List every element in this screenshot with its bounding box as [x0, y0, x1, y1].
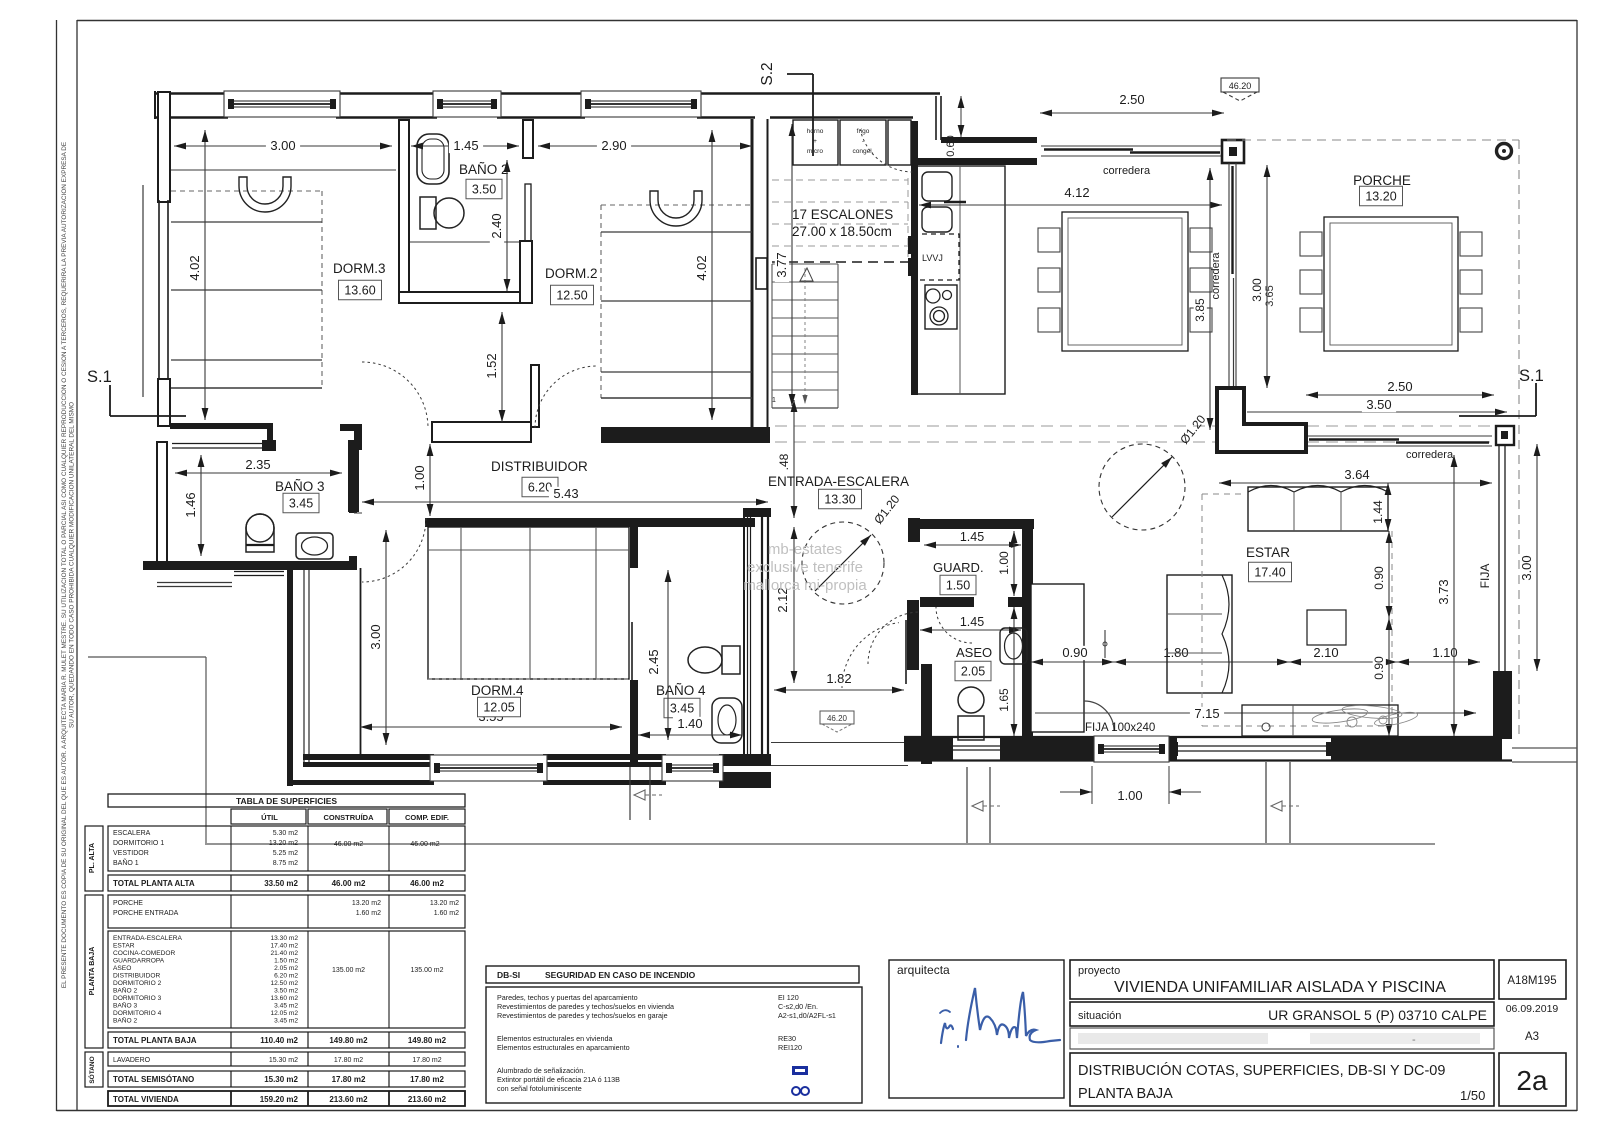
svg-text:BAÑO 2: BAÑO 2 — [459, 162, 509, 177]
svg-text:ESTAR: ESTAR — [113, 943, 135, 950]
svg-text:2.05 m2: 2.05 m2 — [274, 965, 298, 972]
svg-text:Elementos estructurales en apa: Elementos estructurales en aparcamiento — [497, 1043, 630, 1052]
window W1 top dorm3 — [224, 91, 340, 117]
svg-text:DORMITORIO 1: DORMITORIO 1 — [113, 840, 164, 847]
sofa top estar — [1248, 487, 1388, 531]
svg-text:12.05: 12.05 — [483, 701, 514, 715]
dorm3 door arc — [362, 362, 428, 428]
dorm2 door arc — [535, 366, 597, 428]
door post distribuidor-dorm3 — [340, 424, 362, 431]
pl alta group — [85, 826, 103, 891]
L pier kitchen-estar — [1217, 388, 1306, 452]
svg-text:46.00 m2: 46.00 m2 — [410, 841, 439, 848]
svg-text:2.35: 2.35 — [245, 457, 270, 472]
svg-text:TOTAL PLANTA ALTA: TOTAL PLANTA ALTA — [113, 879, 195, 888]
dorm2 bed — [601, 204, 752, 206]
svg-text:FIJA: FIJA — [1478, 564, 1492, 589]
svg-text:46.20: 46.20 — [1229, 81, 1252, 91]
svg-text:BAÑO 4: BAÑO 4 — [656, 683, 706, 698]
sideboard estar — [1242, 705, 1398, 736]
dorm4 left exterior face — [287, 562, 293, 786]
svg-text:1: 1 — [772, 397, 776, 404]
svg-text:17.40 m2: 17.40 m2 — [271, 943, 299, 950]
open arrow markers — [972, 801, 983, 811]
svg-text:13.60 m2: 13.60 m2 — [271, 995, 299, 1002]
svg-text:12.50 m2: 12.50 m2 — [271, 980, 299, 987]
svg-text:Extintor portátil de eficacia: Extintor portátil de eficacia 21A ó 113B — [497, 1075, 620, 1084]
svg-text:DISTRIBUIDOR: DISTRIBUIDOR — [113, 973, 160, 980]
svg-text:ENTRADA-ESCALERA: ENTRADA-ESCALERA — [768, 474, 909, 489]
dim 3.00 dorm4 — [385, 530, 387, 745]
svg-text:6.20 m2: 6.20 m2 — [274, 973, 298, 980]
svg-text:3.00: 3.00 — [1519, 555, 1534, 580]
svg-text:LAVADERO: LAVADERO — [113, 1057, 151, 1064]
svg-text:1.00: 1.00 — [997, 551, 1011, 575]
dims 2.50 3.50 estar top — [1306, 394, 1494, 396]
title block plano — [1070, 1053, 1494, 1106]
dim 4.12 kitchen — [919, 204, 1222, 206]
aseo door arc — [868, 612, 918, 664]
svg-text:2.40: 2.40 — [489, 213, 504, 238]
bano3 right wall — [349, 443, 357, 513]
total planta alta — [108, 875, 465, 891]
arquitecta box — [889, 960, 1064, 1098]
dim 2.12 entrada — [793, 527, 795, 683]
svg-text:1.00: 1.00 — [1117, 788, 1142, 803]
guard door arc — [936, 607, 972, 643]
svg-text:arquitecta: arquitecta — [897, 963, 950, 977]
svg-text:2.10: 2.10 — [1313, 645, 1338, 660]
svg-text:PLANTA BAJA: PLANTA BAJA — [89, 947, 96, 996]
dorm4 wardrobe bed block — [428, 527, 629, 679]
svg-text:5.43: 5.43 — [553, 486, 578, 501]
svg-text:ESTAR: ESTAR — [1246, 545, 1290, 560]
blue signage icons — [792, 1066, 808, 1075]
svg-text:6.20: 6.20 — [528, 481, 552, 495]
dim 1.44 — [1387, 483, 1389, 531]
left exterior wall dorm3 — [158, 92, 170, 202]
page border frame — [77, 20, 1577, 22]
corredera estar — [1306, 435, 1492, 437]
dorm2 pillow — [650, 191, 702, 226]
svg-text:VESTIDOR: VESTIDOR — [113, 850, 149, 857]
guard labels — [924, 544, 1021, 546]
window W2 top bano2 — [433, 91, 501, 117]
svg-text:ESCALERA: ESCALERA — [113, 830, 151, 837]
guard right wall — [1022, 519, 1033, 736]
svg-text:17 ESCALONES: 17 ESCALONES — [792, 207, 893, 222]
svg-text:REI120: REI120 — [778, 1043, 802, 1052]
dim 0.60 jog — [960, 96, 962, 137]
svg-text:-: - — [1412, 1034, 1416, 1046]
svg-text:COCINA-COMEDOR: COCINA-COMEDOR — [113, 950, 176, 957]
svg-text:1.82: 1.82 — [826, 671, 851, 686]
svg-text:CONSTRUÍDA: CONSTRUÍDA — [324, 813, 375, 822]
svg-text:4.02: 4.02 — [694, 255, 709, 280]
total vivienda — [108, 1091, 465, 1106]
stair wall niche — [756, 258, 767, 289]
column fireplace — [1031, 584, 1084, 732]
svg-text:3.00: 3.00 — [1250, 278, 1264, 302]
svg-text:DORMITORIO 3: DORMITORIO 3 — [113, 995, 162, 1002]
dim 1.00 corridor — [429, 444, 431, 516]
svg-text:A18M195: A18M195 — [1507, 975, 1556, 987]
svg-text:TOTAL VIVIENDA: TOTAL VIVIENDA — [113, 1095, 179, 1104]
dim 3.64 — [1219, 482, 1492, 484]
bano2 toilet — [420, 197, 436, 229]
svg-text:3.45 m2: 3.45 m2 — [274, 1018, 298, 1025]
svg-text:TABLA DE SUPERFICIES: TABLA DE SUPERFICIES — [236, 796, 337, 806]
dims 4.02 verticals — [204, 130, 206, 420]
bano3 lower window — [234, 571, 284, 573]
svg-text:corredera: corredera — [1406, 449, 1454, 461]
shaft wall dorm2 door — [531, 365, 539, 427]
svg-text:2.45: 2.45 — [646, 649, 661, 674]
aseo left wall — [907, 600, 919, 670]
svg-text:BAÑO 3: BAÑO 3 — [275, 479, 325, 494]
svg-text:12.05 m2: 12.05 m2 — [271, 1010, 299, 1017]
svg-text:DORMITORIO 2: DORMITORIO 2 — [113, 980, 162, 987]
svg-text:S.2: S.2 — [759, 62, 776, 85]
bano4 top wall — [629, 518, 755, 527]
svg-text:13.30 m2: 13.30 m2 — [271, 935, 299, 942]
window south small — [1094, 736, 1169, 762]
svg-text:1.45: 1.45 — [960, 615, 984, 629]
svg-text:S.1: S.1 — [1519, 367, 1544, 385]
dorm4 left wall inner face — [360, 568, 362, 754]
window bottom dorm4 — [430, 755, 547, 781]
svg-text:congel.: congel. — [853, 148, 874, 155]
corridor wall fragment bano3-dorm4 — [348, 440, 360, 448]
svg-text:1.44: 1.44 — [1371, 500, 1385, 524]
estar dashed area — [1201, 494, 1203, 726]
neighbour boundary line — [88, 656, 206, 658]
svg-text:46.00 m2: 46.00 m2 — [332, 879, 366, 888]
svg-text:13.30: 13.30 — [824, 493, 855, 507]
dining table porch — [1324, 217, 1458, 351]
bano3 labels — [175, 472, 342, 474]
corredera vertical east of kitchen — [1228, 163, 1230, 391]
svg-text:1.40: 1.40 — [677, 716, 702, 731]
SE corner pier — [1493, 671, 1512, 739]
svg-text:0.60: 0.60 — [945, 135, 957, 156]
total semisotano — [108, 1071, 465, 1087]
svg-text:situación: situación — [1078, 1010, 1121, 1022]
svg-text:1/50: 1/50 — [1460, 1088, 1485, 1103]
dorm3 bottom wall — [170, 423, 273, 429]
bano3 left wall — [157, 442, 167, 568]
bano2 right wall upper stub — [523, 120, 533, 158]
svg-text:S.1: S.1 — [87, 368, 112, 386]
svg-text:A2-s1,d0/A2FL-s1: A2-s1,d0/A2FL-s1 — [778, 1011, 836, 1020]
svg-text:2.50: 2.50 — [1387, 379, 1412, 394]
svg-text:3.65: 3.65 — [1264, 285, 1276, 306]
bano2 bathtub — [417, 134, 449, 184]
wall dorm4-bano4 — [630, 518, 638, 568]
svg-text:Revestimientos de paredes y te: Revestimientos de paredes y techos/suelo… — [497, 1002, 674, 1011]
entrada circle 1.20 — [802, 522, 884, 604]
svg-text:DISTRIBUCIÓN COTAS, SUPERFICIE: DISTRIBUCIÓN COTAS, SUPERFICIES, DB-SI Y… — [1078, 1062, 1445, 1079]
dorm4 door arc — [362, 518, 426, 582]
plant decor — [1311, 703, 1418, 728]
svg-text:1.60 m2: 1.60 m2 — [434, 910, 459, 917]
svg-text:3.85: 3.85 — [1193, 298, 1207, 322]
corredera sliding door top — [1041, 145, 1222, 147]
window south aseo — [953, 745, 1000, 747]
svg-text:0.90: 0.90 — [1372, 656, 1386, 680]
svg-text:LVVJ: LVVJ — [922, 253, 943, 263]
pillar estar east — [1496, 426, 1514, 445]
svg-text:46.20: 46.20 — [827, 714, 848, 723]
stair dim 3.77 — [791, 124, 793, 406]
svg-text:horno: horno — [807, 128, 824, 135]
svg-text:149.80 m2: 149.80 m2 — [329, 1036, 368, 1045]
dim 1.00 bottom — [1091, 766, 1093, 804]
svg-text:46.00 m2: 46.00 m2 — [410, 879, 444, 888]
svg-text:RE30: RE30 — [778, 1034, 796, 1043]
svg-text:DORM.4: DORM.4 — [471, 683, 524, 698]
svg-text:3.50: 3.50 — [1366, 397, 1391, 412]
svg-text:EI 120: EI 120 — [778, 993, 799, 1002]
svg-text:12.50: 12.50 — [556, 289, 587, 303]
kitchen nook west wall — [911, 121, 918, 395]
appliance boxes horno frigo — [793, 120, 838, 165]
bottom outer skin lines — [287, 780, 434, 785]
patio stubs below plan — [966, 767, 968, 843]
aseo toilet — [958, 687, 984, 713]
svg-text:3.73: 3.73 — [1436, 579, 1451, 604]
entrada door arc — [842, 623, 899, 688]
svg-text:110.40 m2: 110.40 m2 — [260, 1036, 298, 1045]
svg-text:15.30 m2: 15.30 m2 — [269, 1057, 298, 1064]
bidet bano3 — [296, 533, 333, 559]
svg-text:PL. ALTA: PL. ALTA — [89, 843, 96, 873]
svg-text:21.40 m2: 21.40 m2 — [271, 950, 299, 957]
svg-text:Paredes, techos y puertas del: Paredes, techos y puertas del aparcamien… — [497, 993, 638, 1002]
svg-text:46.00 m2: 46.00 m2 — [334, 841, 363, 848]
svg-text:213.60 m2: 213.60 m2 — [329, 1095, 368, 1104]
dorm2 right wall / stair west wall — [751, 119, 754, 427]
window W3 top dorm2 — [581, 91, 701, 117]
long section line across sheet — [205, 843, 1435, 845]
svg-text:ASEO: ASEO — [113, 965, 131, 972]
title block redacted band — [1070, 1028, 1494, 1049]
title block situacion — [1070, 1002, 1494, 1026]
svg-text:FIJA 100x240: FIJA 100x240 — [1085, 722, 1155, 734]
svg-text:SÓTANO: SÓTANO — [87, 1056, 96, 1083]
svg-text:135.00 m2: 135.00 m2 — [410, 967, 443, 974]
svg-text:13.20: 13.20 — [1365, 190, 1396, 204]
svg-text:mb-estates: mb-estates — [768, 541, 842, 558]
svg-text:8.75 m2: 8.75 m2 — [273, 860, 298, 867]
kitchen door arc — [860, 129, 913, 172]
svg-text:BAÑO 2: BAÑO 2 — [113, 1016, 138, 1025]
svg-text:06.09.2019: 06.09.2019 — [1506, 1003, 1559, 1015]
total planta baja — [108, 1032, 465, 1048]
level marker 46.20 top — [1221, 78, 1259, 92]
fija window east — [1498, 444, 1500, 671]
svg-text:149.80 m2: 149.80 m2 — [408, 1036, 447, 1045]
aseo labels — [920, 629, 1021, 631]
svg-text:micro: micro — [807, 148, 823, 155]
dims horizontal row estar — [1031, 661, 1114, 663]
svg-text:3.50: 3.50 — [472, 183, 496, 197]
svg-text:2.05: 2.05 — [961, 665, 985, 679]
svg-text:DISTRIBUIDOR: DISTRIBUIDOR — [491, 459, 588, 474]
svg-text:1.46: 1.46 — [183, 492, 198, 517]
kitchen sink — [922, 172, 952, 201]
svg-text:frigo: frigo — [857, 128, 870, 135]
bottom wall estar block — [904, 736, 1512, 738]
svg-text:17.80 m2: 17.80 m2 — [334, 1057, 363, 1064]
svg-text:SEGURIDAD EN CASO DE INCEN: SEGURIDAD EN CASO DE INCENDIO — [545, 970, 696, 980]
dorm2 bottom wall — [601, 427, 770, 443]
svg-text:VIVIENDA UNIFAMILIAR AISLADA Y: VIVIENDA UNIFAMILIAR AISLADA Y PISCINA — [1114, 979, 1446, 996]
svg-text:GUARDARROPA: GUARDARROPA — [113, 958, 165, 965]
svg-text:.48: .48 — [777, 453, 791, 470]
bano4 east wall with window strip — [743, 508, 771, 517]
porch dashed boundary — [1227, 139, 1519, 141]
svg-text:5.30 m2: 5.30 m2 — [273, 830, 298, 837]
stair lower flight treads — [772, 263, 838, 265]
svg-text:TOTAL SEMISÓTANO: TOTAL SEMISÓTANO — [113, 1075, 194, 1084]
svg-text:13.60: 13.60 — [344, 284, 375, 298]
svg-text:mallorca mi-propia: mallorca mi-propia — [743, 577, 867, 594]
dim 7.15 — [1035, 712, 1476, 714]
svg-text:1.60 m2: 1.60 m2 — [356, 910, 381, 917]
svg-text:1.45: 1.45 — [960, 530, 984, 544]
bano2 right wall lower — [520, 241, 532, 303]
svg-text:3.77: 3.77 — [774, 252, 789, 277]
hob — [925, 285, 957, 329]
svg-text:2.50: 2.50 — [1119, 92, 1144, 107]
svg-text:2a: 2a — [1516, 1065, 1548, 1096]
svg-text:15.30 m2: 15.30 m2 — [264, 1075, 298, 1084]
svg-text:1.52: 1.52 — [484, 353, 499, 378]
svg-text:PLANTA BAJA: PLANTA BAJA — [1078, 1086, 1173, 1102]
svg-text:159.20 m2: 159.20 m2 — [260, 1095, 299, 1104]
dim 5.43 — [362, 501, 768, 503]
title block right code — [1499, 960, 1566, 999]
svg-text:0.90: 0.90 — [1372, 566, 1386, 590]
svg-text:1.50: 1.50 — [946, 579, 970, 593]
svg-text:3.64: 3.64 — [1344, 467, 1369, 482]
porch column circle — [1497, 144, 1512, 159]
svg-text:13.20 m2: 13.20 m2 — [352, 900, 381, 907]
toilet bano3 — [246, 514, 274, 542]
middle big dashed circle — [1099, 444, 1185, 530]
svg-text:con señal fotoluminiscente: con señal fotoluminiscente — [497, 1084, 582, 1093]
svg-text:33.50 m2: 33.50 m2 — [264, 879, 298, 888]
bottom exterior wall dorm4 block — [303, 754, 434, 760]
svg-text:13.20 m2: 13.20 m2 — [430, 900, 459, 907]
svg-text:13.20 m2: 13.20 m2 — [269, 840, 298, 847]
svg-text:3.50 m2: 3.50 m2 — [274, 988, 298, 995]
svg-text:3.00: 3.00 — [368, 624, 383, 649]
closet wall below bano2 — [432, 422, 531, 442]
svg-text:ÚTIL: ÚTIL — [261, 813, 278, 822]
svg-text:UR GRANSOL 5 (P) 03710 CALPE: UR GRANSOL 5 (P) 03710 CALPE — [1268, 1007, 1487, 1023]
watermark — [743, 541, 867, 594]
dim 1.82 — [774, 689, 904, 691]
column headers — [231, 809, 306, 824]
coffee table — [1307, 610, 1346, 645]
svg-text:corredera: corredera — [1103, 165, 1151, 177]
svg-text:A3: A3 — [1525, 1031, 1539, 1043]
dim 2.45 line bano4 — [667, 570, 669, 740]
title block proyecto — [1070, 960, 1494, 999]
svg-text:BAÑO 1: BAÑO 1 — [113, 858, 139, 867]
svg-text:17.80 m2: 17.80 m2 — [410, 1075, 444, 1084]
svg-text:PORCHE ENTRADA: PORCHE ENTRADA — [113, 910, 179, 917]
svg-text:7.15: 7.15 — [1194, 706, 1219, 721]
bano2 shower line — [410, 241, 519, 243]
svg-text:ASEO: ASEO — [956, 645, 992, 660]
svg-text:GUARD.: GUARD. — [933, 560, 984, 575]
svg-text:DORM.2: DORM.2 — [545, 266, 598, 281]
dashed corridor lines across plan — [775, 425, 1516, 427]
planta baja group — [85, 895, 103, 1048]
svg-text:0.90: 0.90 — [1062, 645, 1087, 660]
svg-text:TOTAL PLANTA BAJA: TOTAL PLANTA BAJA — [113, 1036, 197, 1045]
dishwasher LVVJ — [913, 234, 959, 280]
window bottom bano4 — [662, 755, 723, 781]
svg-text:C-s2,d0 /En.: C-s2,d0 /En. — [778, 1002, 818, 1011]
svg-text:BAÑO 3: BAÑO 3 — [113, 1001, 138, 1010]
db-si header — [486, 966, 859, 983]
wall bano2 left — [399, 120, 409, 301]
svg-text:1.00: 1.00 — [412, 465, 427, 490]
svg-text:DORMITORIO 4: DORMITORIO 4 — [113, 1010, 162, 1017]
dims top rooms — [174, 145, 392, 147]
svg-text:17.80 m2: 17.80 m2 — [412, 1057, 441, 1064]
svg-text:27.00 x 18.50cm: 27.00 x 18.50cm — [792, 224, 892, 239]
svg-text:4.02: 4.02 — [187, 255, 202, 280]
dim 1.52 shaft — [501, 312, 503, 422]
svg-text:exclusive tenerife: exclusive tenerife — [747, 559, 863, 576]
guard bottom wall — [920, 597, 974, 607]
svg-text:Revestimientos de paredes y te: Revestimientos de paredes y techos/suelo… — [497, 1011, 668, 1020]
sofa left estar — [1167, 575, 1232, 693]
pillar top — [1222, 140, 1244, 163]
dorm3 bed — [171, 190, 322, 192]
svg-text:17.40: 17.40 — [1254, 566, 1285, 580]
stair walk line — [804, 268, 806, 404]
dorm4 top wall — [425, 518, 635, 527]
svg-text:Alumbrado de señalización.: Alumbrado de señalización. — [497, 1066, 585, 1075]
svg-text:1.45: 1.45 — [453, 138, 478, 153]
svg-text:2.90: 2.90 — [601, 138, 626, 153]
stair upper flight dashed treads — [772, 179, 908, 181]
db-si body — [486, 987, 862, 1103]
svg-text:DORM.3: DORM.3 — [333, 261, 386, 276]
bano3 top window — [172, 443, 276, 445]
svg-text:SU AUTOR, QUEDANDO EN TODO CAS: SU AUTOR, QUEDANDO EN TODO CASO PROHIBID… — [69, 402, 76, 728]
svg-text:Elementos estructurales en viv: Elementos estructurales en vivienda — [497, 1034, 612, 1043]
sotano group — [85, 1052, 103, 1087]
top exterior wall of bedrooms block — [155, 92, 228, 94]
porch floor lines entrada — [771, 742, 908, 744]
svg-text:3.45: 3.45 — [289, 497, 313, 511]
svg-text:EL PRESENTE DOCUMENTO ES COPIA: EL PRESENTE DOCUMENTO ES COPIA DE SU ORI… — [61, 142, 68, 988]
tabla de superficies — [108, 794, 465, 807]
svg-text:1.65: 1.65 — [997, 688, 1011, 712]
dim 2.50 top porch — [1040, 112, 1224, 114]
guard top wall — [912, 519, 1034, 529]
svg-text:BAÑO 2: BAÑO 2 — [113, 986, 138, 995]
level marker 46.20 entrada — [820, 711, 854, 724]
svg-text:proyecto: proyecto — [1078, 965, 1120, 977]
